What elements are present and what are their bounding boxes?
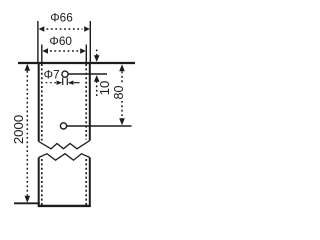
svg-text:Φ66: Φ66 xyxy=(50,11,73,25)
svg-text:2000: 2000 xyxy=(11,115,26,144)
svg-text:Φ7: Φ7 xyxy=(44,67,60,81)
svg-text:Φ60: Φ60 xyxy=(49,34,72,48)
svg-text:80: 80 xyxy=(112,85,126,99)
svg-text:10: 10 xyxy=(97,81,112,96)
